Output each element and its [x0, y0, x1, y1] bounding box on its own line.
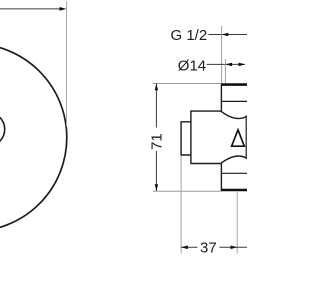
37 dimension line left segment — [181, 246, 197, 248]
37 right extension line (pipe centerline) — [236, 192, 238, 253]
71 dimension line lower segment — [155, 151, 157, 191]
71 top arrow — [155, 84, 158, 91]
svg-text:37: 37 — [200, 240, 217, 257]
Ø14 right arrow — [239, 63, 246, 67]
body left edge — [190, 110, 192, 164]
Ø14 extension line — [224, 59, 226, 83]
body top edge — [191, 110, 221, 112]
Ø14 dimension line — [207, 63, 246, 65]
plate diameter dimension line (label cropped off left) — [0, 8, 64, 10]
71 dimension line upper segment — [155, 84, 157, 128]
71 top extension line — [153, 82, 221, 84]
plate diameter dimension arrow — [60, 7, 67, 11]
71 bottom arrow — [155, 184, 158, 191]
37 right arrow — [231, 246, 238, 250]
flow direction triangle — [232, 130, 245, 146]
inlet nut chamfer arc — [221, 111, 247, 118]
body bottom edge — [191, 163, 221, 165]
37 left arrow — [181, 246, 188, 250]
wall plate front view: outer circle — [0, 44, 67, 232]
extension line at plate right edge — [66, 2, 68, 127]
push button front view: inner circle — [0, 112, 5, 146]
outlet pipe/nut left edge — [220, 164, 222, 192]
37 dimension line right segment — [220, 246, 248, 248]
svg-text:Ø14: Ø14 — [178, 57, 206, 74]
71 bottom extension line — [153, 190, 221, 192]
svg-text:71: 71 — [149, 133, 166, 150]
G 1/2 dimension line — [209, 34, 248, 36]
G 1/2 arrow — [222, 33, 229, 37]
G 1/2 extension line — [221, 26, 223, 83]
body right edge — [245, 116, 247, 159]
inlet nut top line — [221, 100, 247, 102]
outlet nut chamfer arc — [221, 156, 247, 163]
inlet thread top edge (thick) — [221, 83, 247, 86]
37 left extension line — [180, 156, 182, 254]
inlet pipe/nut left edge — [220, 83, 222, 111]
outlet thread bottom edge (thick) — [221, 189, 247, 192]
push-button housing — [181, 122, 191, 155]
Ø14 left arrow — [225, 63, 232, 67]
svg-text:G 1/2: G 1/2 — [171, 27, 208, 44]
outlet nut bottom line — [221, 172, 247, 174]
